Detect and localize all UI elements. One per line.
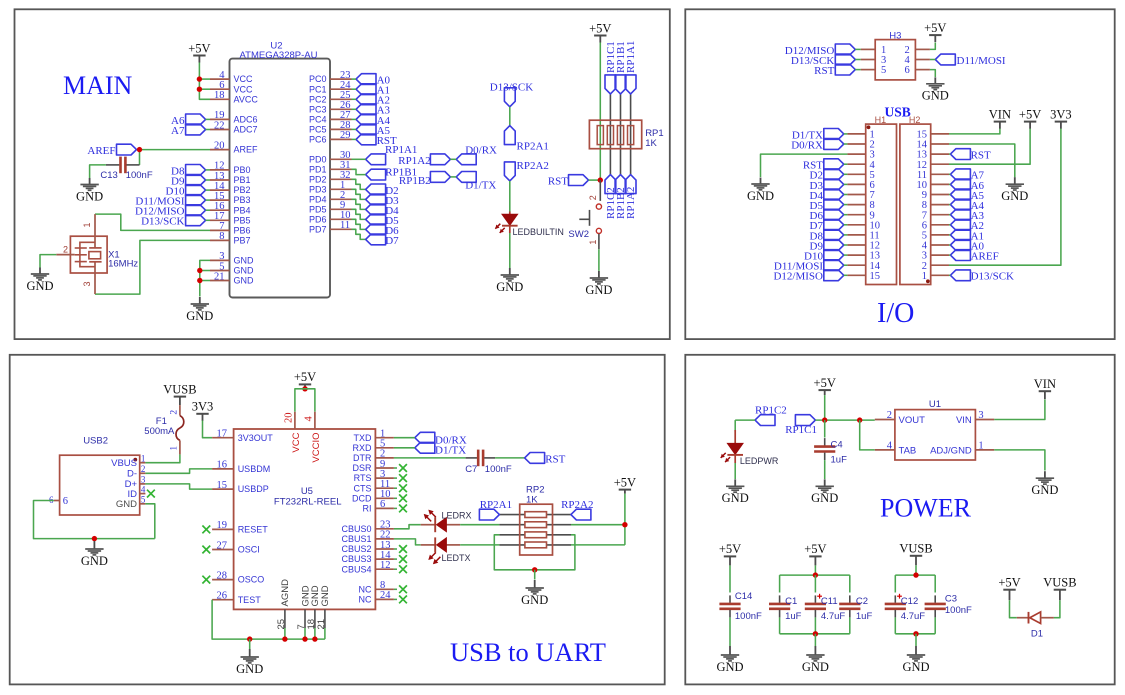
RP2 pins — [499, 515, 571, 545]
wire H3 pin6 to GND — [930, 70, 935, 77]
svg-text:SW2: SW2 — [568, 229, 589, 240]
svg-text:1: 1 — [978, 440, 983, 451]
U2 pin 31 PD1 — [330, 168, 352, 170]
wire D6 H1 — [844, 214, 848, 216]
junction GND bus — [312, 636, 317, 641]
net flag D13/SCK (H3) — [835, 54, 855, 65]
U5 pin 4 VCCIO — [314, 412, 316, 429]
U5 pin 5 RXD — [375, 447, 394, 449]
wire PD7 to D7 — [352, 229, 366, 239]
junction GND bus — [282, 636, 287, 641]
net flag RP1C1 (top) — [605, 75, 616, 94]
power +5V (C1 group) — [804, 542, 826, 565]
svg-text:GND: GND — [234, 256, 255, 266]
wire D8 — [206, 169, 210, 171]
net flag A3 (H2) — [950, 209, 970, 220]
power VUSB (C12 group) — [899, 542, 932, 566]
power VIN (U1) — [1034, 377, 1056, 399]
svg-text:+5V: +5V — [804, 542, 826, 556]
no-connect X (U5 right) — [399, 585, 407, 593]
svg-text:3V3: 3V3 — [192, 400, 214, 414]
svg-text:4.7uF: 4.7uF — [821, 611, 845, 622]
no-connect X (U5 right) — [399, 555, 407, 563]
H3 pin 2 — [915, 48, 930, 50]
svg-text:AGND: AGND — [280, 579, 291, 607]
wire USB2 pin6 shield to GND — [34, 501, 155, 539]
H2 pin 1 — [931, 274, 949, 276]
svg-text:27: 27 — [217, 540, 228, 551]
crystal X1 16MHz — [56, 214, 107, 294]
svg-text:20: 20 — [284, 413, 295, 424]
wire A5 — [352, 128, 357, 130]
U2 pin 13 PB1 — [210, 179, 230, 181]
svg-text:+5V: +5V — [188, 41, 210, 55]
svg-text:POWER: POWER — [880, 494, 972, 523]
U5 pin 23 CBUS0 — [375, 528, 394, 530]
net flag RP1B1 (top) — [615, 75, 626, 94]
svg-text:GND: GND — [902, 660, 929, 674]
U5 pin 10 DCD — [375, 497, 394, 499]
svg-text:RST: RST — [545, 454, 565, 466]
wire H2 pin14 to GND — [949, 144, 1015, 177]
net flag D13/SCK — [186, 215, 206, 226]
svg-text:D11/MOSI: D11/MOSI — [957, 55, 1006, 67]
wire VIN net — [994, 400, 1045, 420]
wire cap to bottom bus — [814, 617, 816, 633]
wire +5V to D1 cathode — [1010, 600, 1017, 618]
wire A5 H2 — [949, 194, 950, 196]
svg-text:PD3: PD3 — [309, 184, 327, 194]
svg-text:CBUS3: CBUS3 — [341, 554, 371, 564]
svg-text:H1: H1 — [875, 115, 887, 125]
svg-text:GND: GND — [234, 276, 255, 286]
no-connect X (U5 right) — [399, 484, 407, 492]
ground (H1) — [747, 178, 774, 203]
wire DTR to C7 — [394, 457, 466, 459]
wire stub — [394, 558, 397, 560]
LED LEDBUILTIN — [495, 214, 517, 233]
U2 pin 18 AVCC — [210, 98, 230, 100]
wire +5V to VCC pin6 — [199, 88, 210, 90]
U5 pin 16 USBDM — [212, 468, 234, 470]
LEDPWR anode lead — [734, 430, 736, 443]
svg-text:3V3OUT: 3V3OUT — [238, 433, 274, 443]
svg-text:8: 8 — [219, 231, 224, 242]
svg-text:PD0: PD0 — [309, 154, 327, 164]
svg-text:PC0: PC0 — [309, 74, 327, 84]
svg-text:RESET: RESET — [238, 525, 269, 535]
svg-text:VCC: VCC — [234, 74, 254, 84]
wire H2 pin15 to VIN — [949, 128, 1000, 134]
net flag D0/RX (H1) — [824, 139, 844, 150]
wire cap to bottom bus — [934, 617, 936, 633]
net flag D0/RX (pair) — [456, 154, 476, 165]
power +5V (U1) — [814, 376, 836, 395]
H2 pin 3 — [931, 254, 949, 256]
ground (C1 group) — [802, 646, 829, 674]
svg-text:OSCI: OSCI — [238, 545, 260, 555]
net flag D2 (H1) — [824, 169, 844, 180]
ground (H3) — [922, 77, 949, 102]
H1 pin 5 — [847, 173, 865, 175]
U2 pin 21 GND — [210, 280, 230, 282]
H3 pin 5 — [861, 69, 876, 71]
ground (C14) — [716, 646, 743, 674]
sheet frame I/O section — [685, 9, 1114, 339]
LEDRX to RP2 resistor pin — [499, 524, 525, 526]
wire D7 H1 — [844, 224, 848, 226]
net flag RP1B1 (PD1) — [366, 169, 386, 180]
op-amp U2 ATMEGA328P-AU body — [230, 59, 331, 298]
U5 pin 17 3V3OUT — [212, 437, 234, 439]
net flag RP1A1 (top) — [625, 75, 636, 94]
wire PD6 to D6 — [352, 219, 366, 229]
svg-text:LEDTX: LEDTX — [442, 553, 471, 563]
ground (LEDBUILTIN) — [496, 268, 523, 294]
power VUSB (F1) — [163, 382, 196, 405]
svg-text:LEDBUILTIN: LEDBUILTIN — [513, 227, 564, 237]
svg-text:GND: GND — [76, 189, 103, 203]
wire USB2 GND pin5 — [145, 504, 154, 539]
wire +5V to VCC — [295, 389, 305, 412]
wire +5V to VOUT node — [824, 395, 826, 420]
svg-text:C14: C14 — [735, 591, 752, 602]
svg-text:16MHz: 16MHz — [108, 259, 138, 270]
U1 pin 1 ADJ/GND — [975, 449, 994, 451]
power +5V (D1) — [998, 576, 1020, 601]
net flag D1/TX (pair) — [456, 172, 476, 183]
H3 pin 6 — [915, 69, 930, 71]
svg-text:2: 2 — [141, 464, 146, 474]
svg-text:USBDM: USBDM — [238, 464, 271, 474]
H1 pin 9 — [847, 214, 865, 216]
wire AREF down to C13 — [139, 150, 141, 165]
svg-text:3: 3 — [978, 410, 983, 421]
svg-text:ADC7: ADC7 — [234, 125, 258, 135]
svg-text:PC3: PC3 — [309, 104, 327, 114]
wire A2 H2 — [949, 224, 950, 226]
junction cap bottom — [813, 631, 818, 636]
U2 pin 9 PD5 — [330, 208, 352, 210]
power VUSB (D1) — [1043, 576, 1076, 601]
wire A6 — [206, 118, 210, 120]
USB2 pin 1 VBUS — [140, 462, 146, 464]
svg-text:D7: D7 — [385, 235, 399, 247]
no-connect X (U5 right) — [399, 545, 407, 553]
net flag RP2A1 (LED) — [504, 126, 515, 145]
net flag D8 — [186, 165, 206, 176]
junction +5V/r2 — [622, 522, 627, 527]
wire bus to GND — [915, 634, 917, 646]
junction GND bus — [247, 636, 252, 641]
wire LEDPWR to GND — [734, 463, 736, 479]
capacitor C2 — [839, 595, 860, 617]
junction RP2 GND — [532, 567, 537, 572]
wire gnd pin drop — [284, 628, 286, 639]
svg-text:15: 15 — [217, 480, 228, 491]
H2 pin 13 — [931, 153, 949, 155]
U2 pin 8 PB7 — [210, 239, 230, 241]
net flag RST (PC6) — [356, 134, 376, 145]
svg-text:22: 22 — [214, 120, 225, 131]
svg-text:100nF: 100nF — [485, 464, 512, 475]
svg-text:OSCO: OSCO — [238, 575, 265, 585]
svg-text:AREF: AREF — [87, 145, 115, 157]
wire A0 H2 — [949, 244, 950, 246]
U5 pin 13 CBUS2 — [375, 548, 394, 550]
H2 pin 2 — [931, 264, 949, 266]
svg-text:1K: 1K — [645, 138, 657, 149]
wire CBUS0 to LEDRX — [394, 525, 421, 529]
svg-text:VIN: VIN — [989, 107, 1011, 121]
svg-text:PB1: PB1 — [234, 175, 251, 185]
capacitor C13 — [106, 157, 140, 174]
net flag D6 (H1) — [824, 209, 844, 220]
H2 pin 14 — [931, 143, 949, 145]
svg-text:4: 4 — [141, 484, 146, 494]
U2 pin 10 PD6 — [330, 218, 352, 220]
wire stub — [394, 507, 397, 509]
wire bus to GND — [814, 634, 816, 646]
U5 pin 28 OSCO — [212, 579, 234, 581]
U2 pin 32 PD2 — [330, 178, 352, 180]
wire C14 to GND — [729, 617, 731, 646]
LEDBUILTIN anode lead — [509, 212, 511, 215]
wire D11/MOSI H1 — [844, 264, 848, 266]
svg-text:PD5: PD5 — [309, 204, 327, 214]
H2 pin 4 — [931, 244, 949, 246]
wire RP1C1 to VOUT — [815, 419, 874, 421]
net flag A4 (H2) — [950, 199, 970, 210]
svg-text:29: 29 — [340, 130, 351, 141]
svg-text:GND: GND — [26, 279, 53, 293]
svg-text:RP1A1: RP1A1 — [385, 144, 417, 156]
U2 pin 2 PD4 — [330, 198, 352, 200]
svg-text:21: 21 — [316, 619, 327, 630]
svg-text:USB to UART: USB to UART — [450, 637, 606, 667]
svg-text:26: 26 — [217, 591, 228, 602]
wire PB6 to crystal pin1 — [95, 214, 210, 230]
net flag RST (H1) — [824, 159, 844, 170]
svg-text:PC6: PC6 — [309, 135, 327, 145]
net flag D10 (H1) — [824, 250, 844, 261]
net flag A6 (H2) — [950, 179, 970, 190]
wire D10 — [206, 189, 210, 191]
net flag RP1B2 — [430, 172, 450, 183]
wire A1 H2 — [949, 234, 950, 236]
net flag D11/MOSI (H1) — [824, 260, 844, 271]
svg-text:1: 1 — [922, 271, 927, 282]
net flag AREF — [117, 144, 137, 155]
U2 pin 29 PC6 — [330, 138, 352, 140]
svg-text:RP1A2: RP1A2 — [398, 155, 430, 167]
svg-text:GND: GND — [496, 280, 523, 294]
U5 pin 18 GND — [314, 609, 316, 628]
wire PB7 to crystal pin3 — [95, 240, 210, 294]
svg-text:PB0: PB0 — [234, 165, 251, 175]
wire cap to bottom bus — [849, 617, 851, 633]
wire H3 pin2 to +5V — [930, 43, 935, 50]
wire D1 anode to VUSB — [1054, 600, 1060, 618]
svg-text:ADC6: ADC6 — [234, 115, 258, 125]
svg-text:100nF: 100nF — [735, 611, 762, 622]
svg-text:5: 5 — [141, 495, 146, 505]
svg-text:VBUS: VBUS — [111, 458, 137, 469]
wire CBUS1 to LEDTX — [394, 539, 421, 545]
wire stub — [394, 598, 397, 600]
power 3V3 (H2) — [1050, 107, 1072, 128]
svg-text:RP1A2: RP1A2 — [625, 187, 637, 219]
svg-text:DTR: DTR — [353, 453, 372, 463]
junction GND5 — [197, 268, 202, 273]
net flag D12/MISO (H3) — [835, 44, 855, 55]
svg-text:RI: RI — [363, 504, 372, 514]
diode D1 — [1017, 612, 1054, 624]
USB2 pin 4 ID — [140, 493, 146, 495]
net flag A4 — [356, 114, 376, 125]
IC U5 FT232RL-REEL body — [234, 429, 376, 609]
wire RP2 r4 to +5V line — [571, 544, 625, 546]
net flag RP1C2 (bottom) — [605, 175, 616, 194]
RP1 resistor pins (columns) — [610, 94, 630, 175]
svg-text:RXD: RXD — [352, 443, 372, 453]
wire +5V to AVCC — [199, 63, 210, 100]
wire C12 top bus — [895, 574, 935, 576]
svg-text:1: 1 — [170, 446, 180, 451]
wire stub — [394, 487, 397, 489]
junction C12 bottom — [913, 631, 918, 636]
net flag D5 — [366, 214, 386, 225]
no-connect X (U5 right) — [399, 505, 407, 513]
svg-text:PD6: PD6 — [309, 214, 327, 224]
wire LEDRX to RP2 — [460, 524, 499, 526]
wire RP1B2-D1/TX — [450, 176, 456, 178]
wire SW2 to GND — [598, 249, 600, 271]
svg-text:+5V: +5V — [1019, 107, 1041, 121]
U5 pin 3 RTS — [375, 477, 394, 479]
wire D13/SCK-RP2A1 — [509, 107, 511, 126]
wire node to C4 — [824, 420, 826, 437]
svg-text:VCC: VCC — [291, 432, 302, 452]
ground (RP2) — [521, 580, 548, 607]
net flag A1 (H2) — [950, 230, 970, 241]
svg-text:FT232RL-REEL: FT232RL-REEL — [274, 497, 342, 508]
net flag D9 (H1) — [824, 240, 844, 251]
sheet frame POWER section — [685, 355, 1114, 685]
wire A4 — [352, 118, 357, 120]
svg-text:20: 20 — [214, 140, 225, 151]
svg-text:RP1A1: RP1A1 — [625, 41, 637, 73]
svg-text:NC: NC — [359, 595, 372, 605]
svg-text:+5V: +5V — [614, 475, 636, 489]
wire stub — [394, 477, 397, 479]
net flag A6 — [186, 114, 206, 125]
wire C7 to RST — [495, 457, 524, 459]
U2 pin 16 PB4 — [210, 209, 230, 211]
svg-text:PC1: PC1 — [309, 84, 327, 94]
U2 pin 7 PB6 — [210, 229, 230, 231]
power +5V (U5) — [294, 370, 316, 387]
U5 pin 24 NC — [375, 598, 394, 600]
connector H2 body — [900, 124, 931, 284]
H1 pin 12 — [847, 244, 865, 246]
net flag RST (C7) — [525, 453, 545, 464]
wire cap to bottom bus — [779, 617, 781, 633]
net flag D9 — [186, 175, 206, 186]
svg-text:U1: U1 — [929, 399, 941, 410]
net flag A7 (H2) — [950, 169, 970, 180]
wire ADJ/GND to ground — [994, 450, 1045, 471]
sheet frame USB-to-UART section — [10, 355, 665, 685]
U2 pin 22 ADC7 — [210, 129, 230, 131]
resistor network RP2 1K — [520, 504, 553, 555]
net flag RST (H3) — [835, 64, 855, 75]
power +5V (RP1) — [589, 21, 611, 42]
capacitor C7 — [466, 450, 496, 467]
svg-text:AVCC: AVCC — [234, 94, 259, 104]
wire stub — [394, 467, 397, 469]
U2 pin 14 PB2 — [210, 189, 230, 191]
no-connect X (U5 right) — [399, 474, 407, 482]
wire D12/MISO H3 — [855, 48, 860, 50]
wire LEDPWR anode — [734, 420, 736, 431]
wire D3 H1 — [844, 183, 848, 185]
H1 pin 4 — [847, 163, 865, 165]
svg-text:RST: RST — [971, 150, 991, 162]
capacitor C4 — [814, 438, 835, 460]
U2 pin 17 PB5 — [210, 219, 230, 221]
junction +5V/VOUT — [822, 417, 827, 422]
svg-text:LEDRX: LEDRX — [442, 511, 472, 521]
wire gnd pin drop — [304, 628, 306, 639]
LEDPWR cathode lead — [734, 455, 736, 463]
wire D12/MISO — [206, 209, 210, 211]
svg-text:6: 6 — [63, 496, 68, 507]
svg-text:16: 16 — [217, 460, 228, 471]
svg-text:VUSB: VUSB — [163, 382, 196, 396]
wire GND bus to ground — [249, 639, 251, 649]
capacitor C14 — [719, 595, 740, 617]
wire A6 H2 — [949, 183, 950, 185]
no-connect X (U5 right) — [399, 464, 407, 472]
H1 pin 2 — [847, 143, 865, 145]
H1 pin 10 — [847, 224, 865, 226]
wire VUSB to bus — [915, 565, 917, 575]
svg-text:LEDPWR: LEDPWR — [740, 456, 779, 466]
wire +5V to VCC pin4 — [199, 78, 210, 80]
wire stub — [394, 497, 397, 499]
wire PD5 to D5 — [352, 209, 366, 219]
net flag D11/MOSI — [186, 195, 206, 206]
wire D- to USBDM — [145, 469, 212, 473]
H2 pin 8 — [931, 204, 949, 206]
net flag A5 (H2) — [950, 189, 970, 200]
H2 pin 10 — [931, 183, 949, 185]
net flag A5 — [356, 124, 376, 135]
ground (X1) — [26, 268, 53, 293]
wire PD4 to D4 — [352, 199, 366, 209]
U2 pin 27 PC4 — [330, 118, 352, 120]
U2 pin 28 PC5 — [330, 128, 352, 130]
USB2 pin 3 D+ — [140, 483, 146, 485]
net flag D1/TX (H1) — [824, 129, 844, 140]
wire A3 — [352, 108, 357, 110]
svg-text:RP1C1: RP1C1 — [785, 424, 817, 436]
svg-text:RP1B2: RP1B2 — [399, 175, 431, 187]
power +5V (U2) — [188, 41, 210, 62]
connector USB2 body — [60, 455, 140, 515]
svg-text:USBDP: USBDP — [238, 484, 269, 494]
